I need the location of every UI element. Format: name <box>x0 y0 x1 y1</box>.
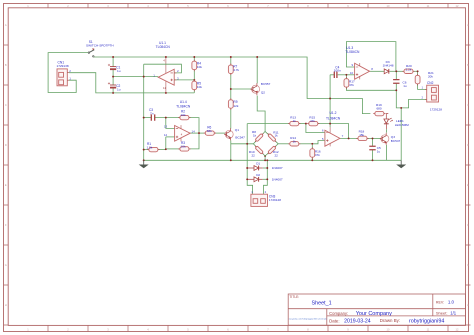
capacitor C5 <box>369 146 375 150</box>
resistor R12 <box>267 145 277 155</box>
resistor R13 <box>288 123 300 125</box>
resistor R2 <box>178 117 190 119</box>
svg-text:H: H <box>467 303 469 307</box>
svg-text:7n: 7n <box>150 112 154 116</box>
node R13 R15 <box>305 123 307 125</box>
svg-text:1k: 1k <box>253 133 257 137</box>
svg-text:1k: 1k <box>293 139 297 143</box>
wire R17 to C6 bottom rail <box>346 87 396 90</box>
svg-text:C: C <box>467 103 469 107</box>
wire C2 to V- bus <box>112 88 114 93</box>
svg-text:15k: 15k <box>359 133 364 137</box>
wire +V to C1 <box>112 57 114 67</box>
wire LED1 to Q3 collector <box>385 129 387 132</box>
transistor Q1 <box>225 130 233 138</box>
wire Q3 emitter to ground <box>386 145 388 160</box>
wire ground drop <box>400 108 402 160</box>
svg-text:100n: 100n <box>334 69 341 73</box>
wire R5 to V- bus <box>193 90 195 93</box>
svg-text:12k: 12k <box>233 104 238 108</box>
svg-text:47k: 47k <box>310 119 315 123</box>
wire V- bus <box>69 73 194 93</box>
svg-text:BC547: BC547 <box>391 139 401 143</box>
svg-text:TL084CN: TL084CN <box>156 45 171 49</box>
wire R1 to node <box>158 149 165 151</box>
node C6 R17 <box>395 89 397 91</box>
wire +V to R7 <box>230 57 232 65</box>
wire R9 to node <box>230 89 232 99</box>
wire node to U1.4 pin 12 <box>165 137 167 150</box>
connector CN1 <box>57 69 67 86</box>
wire node to U1.3 pin 10 <box>346 74 354 76</box>
svg-text:G: G <box>467 263 469 267</box>
diode D3 <box>384 69 389 74</box>
node R4 R5 <box>193 79 195 81</box>
svg-text:CN2: CN2 <box>427 81 434 85</box>
wire +V bus <box>94 57 371 114</box>
wire D1 cathode <box>263 167 268 169</box>
wire U1.4 out to R6 <box>190 132 205 134</box>
wire node to U1.2 pin 6 <box>306 124 325 133</box>
U1.1 pin 11 stub <box>165 81 167 93</box>
wire R4-R5 node to U1.1 pin 3 <box>174 79 194 81</box>
svg-text:B: B <box>5 63 7 67</box>
node C3 R2 <box>165 117 167 119</box>
wire C6 to rail <box>395 83 397 90</box>
wire R18 to Q3 base <box>367 137 382 139</box>
wire node to R3 <box>166 148 180 150</box>
svg-text:11: 11 <box>163 86 166 90</box>
svg-text:2.2k: 2.2k <box>406 67 412 71</box>
wire D3 to R20 <box>390 70 404 72</box>
diode D2 <box>254 177 259 182</box>
node D1 cathode <box>266 167 268 169</box>
node R16 gnd <box>311 159 313 161</box>
wire gnd to C3 <box>144 117 152 119</box>
svg-text:H: H <box>5 303 7 307</box>
D2 cathode pin <box>259 178 263 180</box>
node bridge gnd <box>264 159 266 161</box>
node R20 R21 <box>417 70 419 72</box>
node +V C1 <box>112 56 114 58</box>
svg-text:G: G <box>5 263 7 267</box>
wire U1.3 out to D3 <box>370 70 385 72</box>
connector CN2 <box>427 85 439 102</box>
svg-text:1.5k: 1.5k <box>147 146 153 150</box>
node R1 R3 <box>165 148 167 150</box>
resistor R6 <box>204 132 216 134</box>
resistor R20 <box>402 70 414 72</box>
svg-text:1u: 1u <box>117 87 121 91</box>
svg-text:1729138: 1729138 <box>57 64 69 68</box>
svg-text:1729128: 1729128 <box>269 198 281 202</box>
wire R16 to ground bus <box>311 157 313 160</box>
svg-text:Company:: Company: <box>329 311 348 316</box>
svg-text:TL084CN: TL084CN <box>176 105 191 109</box>
ground symbol left <box>143 160 145 164</box>
svg-text:680: 680 <box>377 107 382 111</box>
resistor R18 <box>356 137 368 139</box>
wire mid-rail vertical <box>143 64 145 160</box>
resistor R10 <box>254 145 264 155</box>
svg-text:1N4007: 1N4007 <box>272 178 283 182</box>
node bridge left <box>246 143 248 145</box>
node gnd C3 <box>143 117 145 119</box>
wire R21 to CN2 pin 1 <box>418 84 427 90</box>
wire node to R16 <box>311 145 313 149</box>
wire R7 to node <box>230 73 232 89</box>
svg-text:10: 10 <box>350 71 354 75</box>
wire R9 to Q1 collector <box>230 109 232 129</box>
svg-text:1729128: 1729128 <box>430 107 442 111</box>
svg-text:D: D <box>467 143 469 147</box>
svg-text:1k: 1k <box>275 134 279 138</box>
wire CN1 pin1 to S1 <box>48 53 88 93</box>
wire node to R17 <box>345 75 347 79</box>
svg-text:D2: D2 <box>256 173 260 177</box>
svg-text:Q1: Q1 <box>235 128 239 132</box>
node U1.1 out <box>143 76 145 78</box>
svg-text:TL084CN: TL084CN <box>326 117 341 121</box>
node U1.2 out <box>348 137 350 139</box>
wire U1.4 pin 12 stub <box>166 136 175 138</box>
svg-text:22: 22 <box>252 153 256 157</box>
wire D2 cathode <box>263 178 268 180</box>
svg-text:LED-5MM: LED-5MM <box>395 123 409 127</box>
node R18 C5 Q3 <box>372 137 374 139</box>
wire C4 column <box>329 75 331 127</box>
svg-text:12: 12 <box>164 133 168 137</box>
capacitor C6 <box>393 80 399 84</box>
svg-text:D1: D1 <box>256 162 260 166</box>
svg-text:1N4007: 1N4007 <box>272 166 283 170</box>
node +V R7 <box>230 56 232 58</box>
resistor R9 <box>230 98 232 110</box>
wire ground to D1 D2 anodes and CN3 pin 1 <box>247 144 252 194</box>
node C4 R17 pin10 <box>345 74 347 76</box>
capacitor C2 <box>110 84 116 86</box>
node D2 cathode <box>266 178 268 180</box>
op-amp U1.3 <box>355 63 370 79</box>
node D2 anode <box>246 178 248 180</box>
svg-text:1u: 1u <box>377 150 381 154</box>
wire to U1.4 pin 13 <box>166 118 175 129</box>
wire C4 to node <box>338 74 347 76</box>
ground symbol right <box>400 160 402 164</box>
wire node to C6 <box>395 71 397 79</box>
svg-text:B: B <box>467 63 469 67</box>
svg-text:22: 22 <box>275 153 279 157</box>
capacitor C3 <box>151 114 154 120</box>
wire ground bus to cathodes and CN3 pin 2 <box>264 160 268 194</box>
node C5 gnd <box>372 159 374 161</box>
svg-text:10k: 10k <box>181 113 186 117</box>
node D3 C6 <box>395 70 397 72</box>
resistor R14 <box>288 143 300 145</box>
wire R14 to node <box>299 143 313 145</box>
node U1.4 out <box>198 132 200 134</box>
wire to D1 anode <box>247 167 254 169</box>
wire +V to R4 <box>193 57 195 61</box>
resistor R4 <box>193 60 195 72</box>
svg-text:Sheet:: Sheet: <box>436 310 448 315</box>
wire bridge left to R13 <box>247 123 290 125</box>
wire bridge bottom to ground <box>264 156 266 160</box>
wire R13 to R15 <box>299 123 306 125</box>
node cathode gnd <box>266 159 268 161</box>
transistor Q2 <box>252 85 260 93</box>
svg-text:10k: 10k <box>181 144 186 148</box>
node supply drop <box>329 98 331 100</box>
wire Q1 emitter to ground bus <box>230 140 232 160</box>
svg-text:1/1: 1/1 <box>450 310 456 315</box>
resistor R8 <box>254 132 264 142</box>
diode D1 <box>254 166 259 171</box>
svg-text:Your Company: Your Company <box>356 311 392 317</box>
svg-text:1k: 1k <box>293 119 297 123</box>
svg-text:68k: 68k <box>207 129 212 133</box>
wire R20 to R21 <box>413 70 418 72</box>
svg-text:20k: 20k <box>428 74 433 78</box>
wire R4 to R5 <box>193 70 195 86</box>
wire to D2 anode <box>247 178 254 180</box>
resistor R7 <box>230 64 232 76</box>
svg-text:47k: 47k <box>349 83 354 87</box>
resistor R15 <box>307 123 319 125</box>
svg-text:4.7k: 4.7k <box>233 68 239 72</box>
node R7 R9 <box>230 88 232 90</box>
wire U1.3 feedback loop <box>346 42 396 72</box>
op-amp U1.1 <box>158 69 174 85</box>
bridge diamond wires <box>253 131 278 156</box>
svg-text:A: A <box>5 23 7 27</box>
svg-text:BC557: BC557 <box>261 82 271 86</box>
wire to C4 <box>330 74 334 76</box>
node bridge bottom <box>264 155 266 157</box>
wire Q2 collector to bridge top <box>257 96 265 132</box>
connector CN3 <box>251 194 268 206</box>
U1.1 pin 4 stub <box>165 57 167 73</box>
svg-text:13: 13 <box>164 124 168 128</box>
wire C5 to ground bus <box>372 150 374 161</box>
node D1 anode <box>246 167 248 169</box>
svg-text:1u: 1u <box>117 69 121 73</box>
transistor Q3 <box>381 135 389 143</box>
svg-text:Date:: Date: <box>329 318 340 323</box>
U1.1 pin 3 stub <box>174 79 176 81</box>
node cap midpoint <box>112 76 114 78</box>
wire U1.1 feedback to pin 2 <box>144 64 182 73</box>
wire to bridge left vertex <box>231 143 254 145</box>
wire node to Q2 base <box>231 88 252 90</box>
svg-text:REV:: REV: <box>436 300 444 304</box>
svg-text:TITLE:: TITLE: <box>289 295 299 299</box>
node R14 R16 <box>311 143 313 145</box>
title block <box>288 294 465 325</box>
capacitor C4 <box>334 72 337 78</box>
resistor R17 <box>345 77 347 89</box>
wire C1-C2 midpoint <box>112 69 114 85</box>
op-amp U1.4 <box>175 126 191 142</box>
svg-text:D: D <box>5 143 7 147</box>
wire R2-R3 feedback bracket <box>189 118 199 149</box>
node gnd R1 <box>143 149 145 151</box>
svg-text:47k: 47k <box>315 153 320 157</box>
wire bridge right to R14 <box>278 143 290 145</box>
svg-text:Sheet_1: Sheet_1 <box>312 300 332 306</box>
switch S1 <box>88 52 90 54</box>
resistor R11 <box>267 132 277 142</box>
svg-text:robytriggiani94: robytriggiani94 <box>409 318 444 324</box>
svg-text:1.0: 1.0 <box>448 300 455 305</box>
resistor R16 <box>311 147 313 159</box>
node Q1 emitter gnd <box>230 159 232 161</box>
wire U1.2 out to R18 <box>340 137 358 139</box>
svg-text:2019-03-24: 2019-03-24 <box>344 318 371 324</box>
wire R15 to U1.2 output <box>318 124 349 139</box>
wire +V to Q2 emitter <box>256 57 258 83</box>
resistor R19 <box>373 113 385 115</box>
node +V U1.1 <box>165 56 167 58</box>
resistor R21 <box>417 74 419 86</box>
node V- pin11 <box>165 92 167 94</box>
LED D LED1 <box>384 119 389 123</box>
wire node to R21 <box>417 71 419 75</box>
wire C3 to R2 <box>155 117 180 119</box>
svg-text:TL084CN: TL084CN <box>345 50 360 54</box>
U1.1 pin 2 stub <box>174 72 176 74</box>
wire node to C5 <box>372 138 374 146</box>
wire R6 to Q1 base <box>214 132 227 134</box>
wire ground bus <box>144 159 402 161</box>
capacitor C1 <box>110 66 116 68</box>
wire R19 to LED1 <box>386 114 388 119</box>
svg-text:A: A <box>467 23 469 27</box>
wire midpoint to U1.1 output <box>113 76 158 78</box>
wire gnd to R1 <box>144 149 149 151</box>
node +V R4 <box>193 56 195 58</box>
svg-text:E: E <box>467 183 469 187</box>
svg-text:SWITCH-SPDTPTH: SWITCH-SPDTPTH <box>86 44 114 48</box>
svg-text:BC547: BC547 <box>235 136 245 140</box>
svg-text:10k: 10k <box>197 85 202 89</box>
resistor R3 <box>178 148 190 150</box>
svg-text:14: 14 <box>192 129 196 133</box>
resistor R5 <box>193 80 195 92</box>
wire node to U1.2 pin 5 <box>312 141 325 144</box>
U1.2 pin 4 stub <box>329 127 331 133</box>
svg-text:Drawn By:: Drawn By: <box>380 318 400 323</box>
node V- C2 <box>112 92 114 94</box>
wire R13 drop <box>246 124 248 144</box>
svg-text:E: E <box>5 183 7 187</box>
svg-text:C: C <box>5 103 7 107</box>
svg-text:1u: 1u <box>403 84 407 88</box>
svg-text:1N4148: 1N4148 <box>383 64 394 68</box>
op-amp U1.2 <box>325 130 340 146</box>
node gnd CN2 <box>400 107 402 109</box>
node C4 output <box>329 123 331 125</box>
svg-text:U1.2: U1.2 <box>330 111 337 115</box>
node +V Q2 <box>256 56 258 58</box>
wire ground to CN2 pin 2 <box>396 90 426 108</box>
resistor R1 <box>147 149 159 151</box>
D1 cathode pin <box>259 167 263 169</box>
svg-text:Q2: Q2 <box>261 91 265 95</box>
LED1 cathode pin <box>385 124 387 129</box>
node gnd rail left <box>143 159 145 161</box>
svg-text:10k: 10k <box>197 65 202 69</box>
svg-text:easyeda.com/robytriggiani94 s: easyeda.com/robytriggiani94 schematic <box>289 318 328 321</box>
